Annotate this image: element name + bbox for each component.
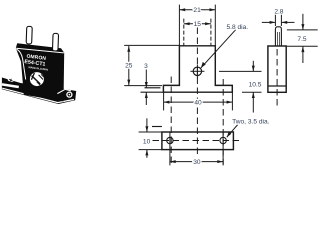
bottom view: horizontal center line — [153, 140, 241, 142]
pictorial: right base screw hole — [67, 92, 72, 97]
svg-text:3: 3 — [144, 63, 148, 70]
front view: left hole center line — [170, 77, 172, 165]
front view: outline — [163, 46, 232, 92]
pictorial: base slab — [2, 78, 76, 105]
side view: base line — [268, 85, 286, 87]
svg-text:10.5: 10.5 — [249, 82, 262, 89]
svg-text:7.5: 7.5 — [297, 36, 306, 43]
bottom view: outline — [162, 132, 234, 150]
dimension 30 — [170, 152, 223, 165]
pictorial: body — [16, 43, 71, 101]
svg-text:40: 40 — [194, 100, 202, 107]
dimension 10.5 — [219, 61, 262, 113]
pictorial: OMRON label text — [23, 53, 49, 71]
front view: mystery stub — [152, 126, 162, 128]
side view: body — [268, 46, 286, 92]
dimension 2.8 — [262, 14, 295, 26]
dimension 10 — [139, 118, 162, 158]
side view: terminal — [275, 27, 281, 46]
front view: step stub line — [145, 87, 161, 89]
dimension 40 — [164, 92, 233, 110]
pictorial: left base pad highlight — [2, 84, 19, 87]
dimension 21 — [179, 5, 215, 46]
front view: 5.8 dia hole — [190, 64, 204, 78]
svg-text:15: 15 — [194, 21, 202, 28]
svg-text:25: 25 — [125, 62, 133, 69]
svg-text:5.8 dia.: 5.8 dia. — [227, 24, 249, 31]
svg-text:2.8: 2.8 — [274, 9, 283, 16]
svg-text:Two, 3.5 dia.: Two, 3.5 dia. — [232, 118, 270, 125]
dimension 3 — [145, 70, 148, 106]
dimension 15 — [184, 19, 211, 46]
svg-text:10: 10 — [143, 139, 151, 146]
pictorial: CSA logo — [30, 72, 44, 86]
dimension 25 — [124, 45, 179, 85]
svg-text:30: 30 — [193, 159, 201, 166]
leader Two 3.5 dia — [227, 125, 238, 138]
pictorial: right terminal prong — [52, 33, 58, 51]
bottom view: right hole — [220, 132, 226, 153]
leader 5.8 dia — [201, 30, 236, 68]
pictorial: left terminal prong — [26, 26, 32, 44]
dimension 7.5 — [287, 14, 318, 63]
svg-text:21: 21 — [193, 7, 201, 14]
front view: base bottom extension left — [141, 91, 164, 93]
side view: center line — [276, 49, 278, 106]
pictorial: left base screw head — [7, 78, 14, 82]
front view: center line — [196, 28, 198, 158]
bottom view: left hole — [167, 132, 173, 153]
front view: right hole center line — [222, 79, 224, 165]
